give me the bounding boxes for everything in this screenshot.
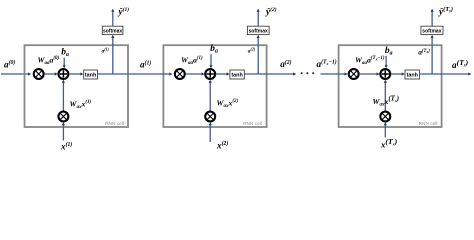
wire: softmax to y-hat output cell 1 xyxy=(111,9,114,27)
svg-text:Waxx(2): Waxx(2) xyxy=(217,99,239,110)
svg-text:ŷ(Ty): ŷ(Ty) xyxy=(438,6,453,16)
softmax box cell 1 xyxy=(102,26,123,34)
svg-text:RNN cell: RNN cell xyxy=(105,121,124,127)
RNN cell 3 box xyxy=(339,45,442,127)
wire: lower multiply up into add node cell 3 xyxy=(384,80,387,111)
svg-text:x(Tx): x(Tx) xyxy=(380,137,398,149)
svg-text:Waaa(1): Waaa(1) xyxy=(181,56,203,67)
wire: branch up to softmax cell 2 xyxy=(257,35,260,74)
tanh box cell 3 xyxy=(405,70,420,79)
add node cell 3 xyxy=(380,69,390,79)
softmax box cell 2 xyxy=(247,26,269,34)
ellipsis dots (time steps omitted) xyxy=(301,72,315,74)
svg-text:Waxx(Tx): Waxx(Tx) xyxy=(373,95,400,108)
wire: add node to tanh cell 2 xyxy=(216,72,230,75)
RNN cell 1 box xyxy=(25,45,129,127)
wire: softmax to y-hat output cell 3 xyxy=(431,9,434,27)
wire: x input arrow into lower multiply cell 2 xyxy=(209,122,212,142)
add node cell 1 xyxy=(58,69,68,79)
wire: x input arrow into lower multiply cell 3 xyxy=(384,122,387,137)
svg-text:a(0): a(0) xyxy=(4,59,15,69)
RNN cell 2 box xyxy=(163,45,266,127)
wire: input arrow a(0) into RNN cell 1 xyxy=(1,72,31,75)
svg-text:a(2): a(2) xyxy=(248,47,256,55)
svg-text:ba: ba xyxy=(61,46,69,58)
wire: b_a arrow into add node cell 1 xyxy=(63,58,66,69)
wire: softmax to y-hat output cell 2 xyxy=(257,9,260,27)
wire: add node to tanh cell 1 xyxy=(69,72,84,75)
svg-text:a(Tx): a(Tx) xyxy=(418,48,430,57)
wire: x input arrow into lower multiply cell 1 xyxy=(62,122,65,140)
svg-text:tanh: tanh xyxy=(407,72,418,78)
wire: branch up to softmax cell 3 xyxy=(431,35,434,74)
wire: lower multiply up into add node cell 1 xyxy=(62,80,65,111)
wire: a(2) from tanh cell 2 toward ellipsis xyxy=(244,72,296,75)
wire: multiply to add node cell 3 xyxy=(359,72,379,75)
wire: multiply to add node cell 1 xyxy=(44,72,58,75)
svg-text:Waaa(0): Waaa(0) xyxy=(38,56,60,67)
multiply node (W_aa) cell 2 xyxy=(175,69,185,79)
svg-text:ba: ba xyxy=(385,45,393,57)
svg-text:Waaa(Tx−1): Waaa(Tx−1) xyxy=(355,56,385,67)
svg-text:tanh: tanh xyxy=(85,72,96,78)
svg-text:ŷ(2): ŷ(2) xyxy=(265,6,277,16)
wire: a(1) from tanh cell 1 to cell 2 xyxy=(98,72,173,75)
wire: b_a arrow into add node cell 2 xyxy=(209,54,212,68)
svg-text:tanh: tanh xyxy=(231,72,242,78)
multiply node (W_aa) cell 1 xyxy=(34,69,44,79)
svg-text:RNN cell: RNN cell xyxy=(243,121,262,127)
svg-text:a(1): a(1) xyxy=(102,47,110,55)
multiply node (W_aa) cell 3 xyxy=(349,69,359,79)
wire: a(Tx) final output arrow xyxy=(420,72,472,75)
svg-text:x(2): x(2) xyxy=(216,140,228,150)
svg-text:softmax: softmax xyxy=(103,28,122,34)
wire: b_a arrow into add node cell 3 xyxy=(385,56,388,68)
svg-text:a(1): a(1) xyxy=(140,59,151,69)
svg-text:ŷ(1): ŷ(1) xyxy=(118,6,130,16)
svg-text:softmax: softmax xyxy=(249,28,268,34)
svg-text:softmax: softmax xyxy=(422,28,441,34)
multiply node (W_ax) cell 2 xyxy=(205,112,215,122)
wire: add node to tanh cell 3 xyxy=(391,72,405,75)
wire: lower multiply up into add node cell 2 xyxy=(209,80,212,111)
multiply node (W_ax) cell 1 xyxy=(58,112,68,122)
svg-text:Waxx(1): Waxx(1) xyxy=(70,100,92,111)
svg-text:a(Tx−1): a(Tx−1) xyxy=(317,59,337,69)
add node cell 2 xyxy=(205,69,215,79)
svg-text:a(Ty): a(Ty) xyxy=(452,58,469,70)
wire: branch up to softmax cell 1 xyxy=(111,35,114,74)
wire: a(Tx-1) arrow into cell 3 xyxy=(321,72,348,75)
wire: multiply to add node cell 2 xyxy=(185,72,204,75)
tanh box cell 2 xyxy=(230,70,244,79)
multiply node (W_ax) cell 3 xyxy=(380,112,390,122)
softmax box cell 3 xyxy=(421,26,443,34)
svg-text:a(2): a(2) xyxy=(280,59,291,69)
svg-text:RNN cell: RNN cell xyxy=(419,121,438,127)
tanh box cell 1 xyxy=(84,70,98,79)
svg-text:x(1): x(1) xyxy=(60,141,72,151)
